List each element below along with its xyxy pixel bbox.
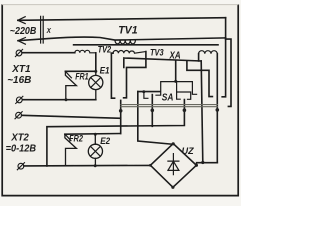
winding XA bumps (199, 51, 218, 54)
wire FR1 top line (65, 70, 95, 72)
border frame top light edge (2, 4, 238, 6)
node UZ top (172, 142, 175, 145)
transformer TV1 right edge wire (225, 18, 227, 38)
switch SA movable bus (121, 105, 217, 107)
wire XT2 bottom lead (24, 164, 150, 167)
node wiper3 bus (183, 108, 187, 112)
node XA lead at bus (216, 108, 220, 112)
wire TV3 left tap down (111, 53, 114, 98)
terminal XT1 pin 1 (16, 50, 22, 56)
wire right auxiliary vertical (226, 39, 231, 106)
wire tap down to UZ right (201, 61, 203, 163)
node E1 top junction (94, 70, 97, 73)
node SA contact junction (142, 90, 145, 93)
svg-text:XA: XA (169, 50, 181, 61)
switch SA wiper 1 (120, 100, 122, 133)
switch SA bracket 4 right leg (222, 38, 225, 97)
wire XT1 top lead (22, 52, 75, 54)
wire XT2 top lead (22, 115, 121, 118)
switch SA contact stub (144, 92, 148, 98)
wire XA right lead down (216, 54, 218, 163)
winding XA left lead zigzag (187, 54, 213, 97)
svg-text:TV1: TV1 (118, 24, 137, 36)
svg-text:XT2: XT2 (10, 132, 29, 143)
node wiper1 bus (119, 109, 123, 113)
connector X (41, 16, 44, 43)
thermal contact FR2 release tick (66, 135, 71, 140)
arrow mains bottom (18, 38, 25, 45)
switch SA contact leg below junction (177, 81, 181, 99)
node wiper2 bus (151, 109, 155, 113)
svg-text:E1: E1 (100, 65, 110, 76)
svg-text:SA: SA (162, 92, 174, 104)
node UZ right wire junction (201, 161, 204, 164)
svg-text:TV2: TV2 (98, 43, 112, 54)
thermal contact FR2 (65, 134, 77, 166)
switch SA contact bar L1 (138, 91, 161, 93)
wire SA to UZ top (138, 92, 173, 145)
node UZ right (195, 164, 198, 167)
arrow mains top (18, 17, 25, 24)
diode inside UZ (168, 154, 179, 175)
rectifier UZ bridge diamond (150, 144, 196, 188)
wire XT1 bottom lead (23, 99, 96, 101)
node UZ bottom (171, 186, 174, 189)
wire L1 mains top (18, 18, 226, 21)
terminal XT1 pin 2 (16, 97, 22, 103)
wire tap line to XA (124, 58, 201, 67)
terminal XT2 pin 2 (18, 163, 24, 169)
lamp E2 (94, 134, 96, 166)
svg-text:FR2: FR2 (69, 133, 83, 144)
wire TV2 right lead down (95, 53, 97, 72)
transformer core line (74, 44, 218, 46)
switch SA wiper 3 (47, 100, 185, 166)
svg-text:FR1: FR1 (75, 70, 89, 81)
winding TV2 bumps (75, 50, 96, 52)
winding TV3 bumps (113, 51, 146, 54)
wire TV3 right lead zigzag (124, 52, 146, 98)
border frame (2, 5, 238, 196)
node SA bracket junction (174, 80, 177, 83)
wire L2 mains bottom (18, 37, 226, 41)
svg-text:E2: E2 (100, 135, 110, 146)
svg-text:~16В: ~16В (7, 75, 32, 86)
switch SA bracket 3 (177, 92, 191, 99)
svg-text:TV3: TV3 (150, 46, 164, 57)
terminal XT2 pin 1 (16, 112, 22, 118)
svg-text:XT1: XT1 (11, 64, 31, 75)
lamp E1 (95, 71, 97, 99)
wire FR2 top line (65, 133, 121, 136)
thermal contact FR1 release tick (66, 72, 71, 77)
svg-text:~220В: ~220В (10, 25, 37, 37)
wire UZ right to XA lead (196, 163, 217, 166)
transformer TV1 winding bumps (115, 40, 135, 44)
switch SA bracket over label (156, 82, 197, 96)
node FR1 bottom junction (65, 98, 68, 101)
switch SA wiper 2 (151, 95, 153, 127)
paper inside frame (2, 4, 239, 196)
paper background (0, 0, 241, 206)
node E2 bottom junction (94, 164, 97, 167)
wire tap down to SA bracket (175, 61, 177, 81)
winding TV3 left lead (111, 52, 113, 54)
svg-text:=0-12В: =0-12В (6, 143, 37, 154)
node UZ left (149, 164, 152, 167)
node E2 top junction (94, 133, 97, 136)
svg-text:X: X (46, 27, 51, 35)
thermal contact FR1 (65, 71, 76, 99)
svg-text:UZ: UZ (182, 146, 194, 156)
